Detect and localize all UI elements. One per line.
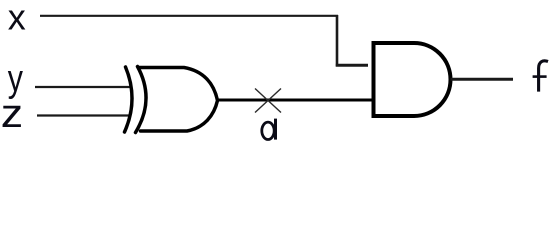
AND gate U2 [374,43,451,116]
wire x vertical drop [336,15,339,67]
node a X mark [255,89,281,113]
wire a: XOR output to AND lower input [216,99,372,102]
svg-text:x: x [8,0,26,38]
label f [533,61,548,92]
wire x to AND top input [336,64,368,67]
wire x horizontal top [40,15,338,17]
wire y [35,86,131,88]
label a [262,119,276,140]
XOR gate U1 [125,67,218,133]
wire z [37,114,131,116]
svg-text:z: z [1,91,23,135]
wire f: AND output [451,78,514,81]
